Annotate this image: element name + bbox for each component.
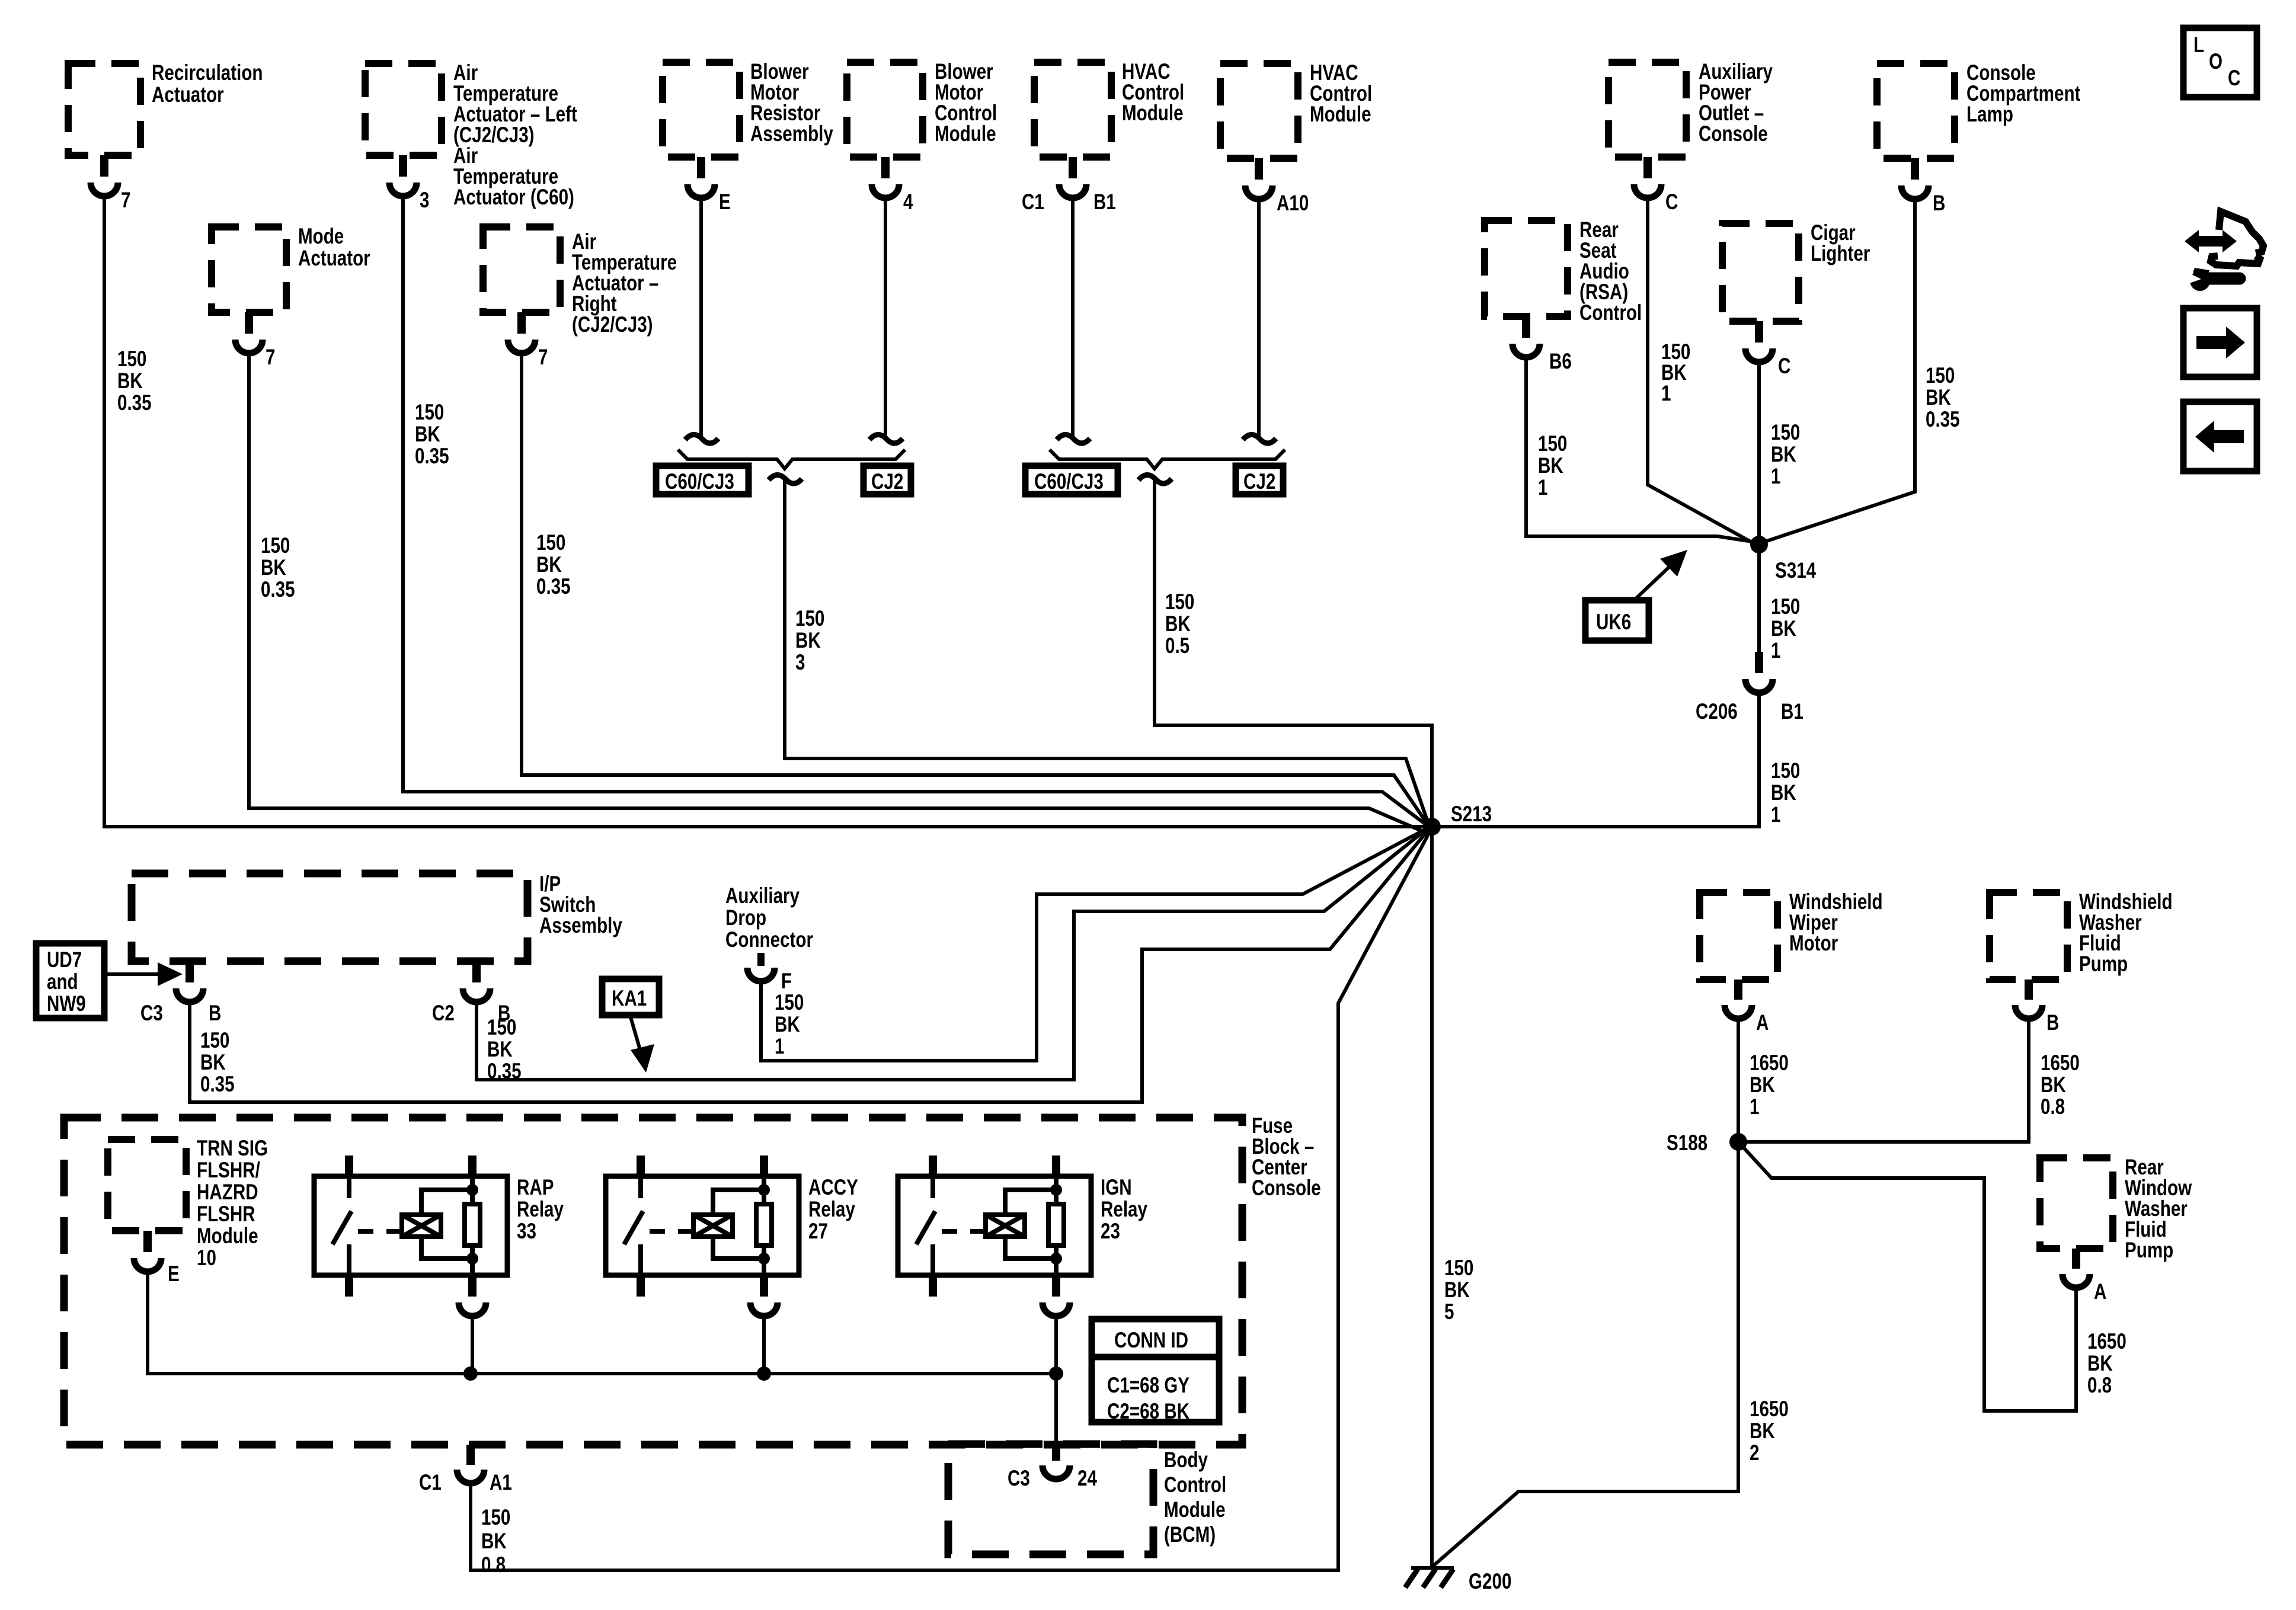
pin A (Windshield Wiper Motor)	[1725, 980, 1769, 1035]
wire: S314 down to C206, 150 BK 1	[1759, 545, 1800, 663]
svg-text:BK: BK	[1538, 454, 1563, 478]
wire: Wiper Motor pin A down to S188, 1650 BK 1	[1738, 1019, 1789, 1142]
svg-text:1650: 1650	[2041, 1051, 2080, 1076]
svg-text:(CJ2/CJ3): (CJ2/CJ3)	[572, 313, 653, 337]
connector box: TRN SIG FLSHR/HAZRD FLSHR Module	[108, 1137, 268, 1270]
label box UD7 and NW9 with arrow	[36, 943, 183, 1018]
wire: Air Temp Actuator Right pin 7 to S213, 150 BK 0.35	[522, 353, 1426, 822]
svg-text:UK6: UK6	[1596, 610, 1631, 635]
svg-text:150: 150	[117, 347, 146, 372]
harness end arc (left group output)	[769, 475, 802, 484]
svg-text:1650: 1650	[1750, 1397, 1789, 1422]
svg-text:RAP: RAP	[517, 1176, 554, 1200]
svg-text:C: C	[1665, 190, 1678, 215]
svg-text:CJ2: CJ2	[1243, 470, 1275, 494]
pin 7 (Recirculation Actuator)	[91, 155, 130, 213]
svg-text:A10: A10	[1277, 191, 1309, 216]
svg-text:BK: BK	[775, 1013, 800, 1037]
svg-text:C3: C3	[140, 1001, 163, 1026]
svg-text:0.35: 0.35	[536, 575, 571, 599]
svg-text:10: 10	[197, 1246, 216, 1270]
svg-text:0.8: 0.8	[481, 1553, 506, 1577]
svg-text:BK: BK	[2087, 1352, 2113, 1376]
vehicle body / wrench icon	[2185, 212, 2263, 291]
pin E (TRN SIG module)	[134, 1231, 180, 1286]
svg-text:KA1: KA1	[612, 987, 647, 1011]
svg-text:1: 1	[775, 1035, 784, 1059]
svg-text:BK: BK	[481, 1529, 507, 1554]
svg-text:7: 7	[538, 345, 548, 370]
svg-text:(BCM): (BCM)	[1164, 1523, 1216, 1547]
connector C206 pin B1	[1696, 652, 1803, 724]
connector box: Rear Window Washer Fluid Pump	[2040, 1156, 2192, 1263]
svg-text:0.8: 0.8	[2087, 1374, 2112, 1398]
wire: right splice output to S213, 150 BK 0.5	[1155, 481, 1432, 827]
svg-text:150: 150	[536, 531, 565, 555]
pin C2 / B (I/P Switch Assembly)	[432, 961, 510, 1026]
svg-text:L: L	[2193, 33, 2204, 57]
pin C (Cigar Lighter)	[1745, 321, 1790, 379]
svg-text:3: 3	[795, 651, 805, 675]
svg-text:150: 150	[200, 1029, 229, 1053]
pin: RAP Relay output	[459, 1275, 486, 1316]
svg-text:Actuator: Actuator	[152, 83, 224, 107]
pin A (Rear Window Washer Fluid Pump)	[2062, 1249, 2106, 1304]
svg-text:1: 1	[1750, 1095, 1759, 1119]
svg-text:BK: BK	[2041, 1073, 2066, 1097]
wire: RAP Relay output down to rail	[471, 1316, 474, 1374]
connector box: Recirculation Actuator	[68, 61, 263, 155]
wire: ACCY Relay output down to rail	[762, 1316, 766, 1374]
wire: TRN module pin E to relay rail	[148, 1272, 1056, 1374]
svg-text:BK: BK	[261, 556, 286, 580]
connector box: Rear Seat Audio (RSA) Control	[1485, 218, 1642, 325]
splice bracket (C60/CJ3 - CJ2 right group)	[1051, 451, 1284, 469]
connector box: Auxiliary Power Outlet - Console	[1609, 60, 1773, 157]
wire: Cigar Lighter pin C down to S314, 150 BK 1	[1759, 362, 1800, 545]
svg-text:BK: BK	[487, 1038, 513, 1062]
svg-text:and: and	[47, 970, 78, 994]
svg-text:E: E	[719, 190, 731, 215]
svg-text:BK: BK	[117, 369, 143, 393]
svg-text:C1=68 GY: C1=68 GY	[1107, 1374, 1189, 1398]
wire: Air Temp Actuator Left pin 3 to S213, 150 BK 0.35	[403, 196, 1425, 824]
svg-text:B1: B1	[1781, 700, 1803, 724]
svg-text:Console: Console	[1699, 122, 1768, 146]
svg-text:C206: C206	[1696, 700, 1738, 724]
svg-text:150: 150	[415, 401, 444, 425]
svg-text:Control: Control	[1164, 1473, 1226, 1497]
svg-text:150: 150	[795, 607, 824, 631]
connector box: Blower Motor Control Module	[847, 60, 997, 157]
svg-text:BK: BK	[1926, 386, 1951, 410]
svg-text:Relay: Relay	[808, 1198, 855, 1222]
svg-text:C1: C1	[1022, 190, 1044, 215]
svg-text:BK: BK	[1750, 1073, 1775, 1097]
svg-text:CONN ID: CONN ID	[1114, 1329, 1188, 1353]
pin 4 (Blower Motor Control Module)	[872, 157, 913, 215]
pin 7 (Mode Actuator)	[235, 312, 275, 370]
svg-text:S314: S314	[1775, 559, 1816, 583]
svg-text:E: E	[168, 1262, 180, 1286]
svg-text:150: 150	[1926, 364, 1955, 388]
svg-text:B1: B1	[1093, 190, 1116, 215]
svg-text:Lamp: Lamp	[1966, 103, 2013, 127]
svg-text:Control: Control	[1579, 301, 1642, 325]
svg-text:UD7: UD7	[47, 948, 82, 972]
connector box: Air Temperature Actuator - Right	[483, 227, 677, 337]
wire: Blower Motor Resistor pin E down to splice bracket	[699, 198, 703, 437]
wire: Aux Drop Connector F to S213, 150 BK 1	[761, 829, 1426, 1061]
svg-text:A1: A1	[490, 1471, 512, 1495]
svg-text:0.35: 0.35	[415, 444, 449, 469]
harness end arc (4 wire)	[869, 434, 903, 443]
svg-text:C2=68 BK: C2=68 BK	[1107, 1400, 1189, 1424]
LOC legend box	[2183, 28, 2257, 97]
wire: HVAC pin B1 down to splice bracket	[1071, 198, 1075, 437]
svg-text:C2: C2	[432, 1001, 455, 1026]
pin: IGN Relay output	[1043, 1275, 1070, 1316]
svg-text:150: 150	[261, 534, 290, 558]
harness end arc (E wire)	[685, 434, 718, 443]
svg-text:Drop: Drop	[725, 906, 766, 930]
wire: S213 to fuse block feed (via C1/A1)	[471, 834, 1428, 1570]
wire: IGN Relay output down to BCM	[1054, 1316, 1058, 1457]
svg-text:S188: S188	[1667, 1131, 1707, 1156]
svg-text:0.35: 0.35	[487, 1060, 522, 1084]
svg-text:Actuator (C60): Actuator (C60)	[453, 185, 574, 210]
svg-text:C60/CJ3: C60/CJ3	[1034, 470, 1104, 494]
connector: Auxiliary Drop Connector pin F	[725, 884, 813, 994]
wire: C206 down to S213 horizontal, 150 BK 1	[1432, 693, 1800, 827]
pin C3 / B (I/P Switch Assembly)	[140, 961, 221, 1026]
label box: CJ2 (left)	[864, 466, 911, 494]
connector box: Console Compartment Lamp	[1877, 61, 2080, 158]
svg-text:C60/CJ3: C60/CJ3	[665, 470, 734, 494]
svg-text:G200: G200	[1469, 1570, 1511, 1594]
label box: C60/CJ3 (right)	[1025, 466, 1118, 494]
svg-text:2: 2	[1750, 1441, 1759, 1465]
svg-text:Auxiliary: Auxiliary	[725, 884, 800, 908]
svg-text:BK: BK	[1750, 1419, 1775, 1443]
pin 3 (Air Temperature Actuator - Left)	[389, 155, 429, 213]
svg-text:33: 33	[517, 1219, 536, 1244]
connector box: Body Control Module (BCM)	[948, 1444, 1226, 1554]
svg-text:5: 5	[1444, 1300, 1454, 1324]
svg-text:0.35: 0.35	[117, 391, 152, 415]
harness end arc (B1 wire)	[1057, 434, 1090, 443]
pin B (Console Compartment Lamp)	[1901, 158, 1945, 216]
svg-text:27: 27	[808, 1219, 828, 1244]
svg-text:150: 150	[1538, 432, 1567, 456]
svg-text:BK: BK	[795, 629, 821, 653]
svg-text:Body: Body	[1164, 1448, 1208, 1473]
svg-text:23: 23	[1101, 1219, 1120, 1244]
svg-text:0.35: 0.35	[261, 578, 295, 602]
svg-text:1: 1	[1538, 476, 1547, 500]
connector box: Mode Actuator	[212, 225, 370, 312]
svg-text:150: 150	[1771, 759, 1800, 783]
splice S188	[1667, 1131, 1747, 1156]
svg-text:150: 150	[1771, 595, 1800, 619]
pin A10 (HVAC Control Module)	[1245, 158, 1309, 216]
pin 7 (Air Temperature Actuator - Right)	[508, 312, 548, 370]
pin B6 (RSA Control)	[1512, 316, 1572, 374]
svg-text:BK: BK	[415, 422, 440, 447]
svg-text:Pump: Pump	[2125, 1238, 2173, 1263]
svg-text:A: A	[1756, 1011, 1769, 1035]
junction dot ACCY/rail	[757, 1366, 771, 1381]
svg-text:0.8: 0.8	[2041, 1095, 2065, 1119]
svg-text:3: 3	[420, 188, 429, 213]
junction dot RAP/rail	[463, 1366, 478, 1381]
svg-text:BK: BK	[1771, 443, 1796, 467]
svg-text:BK: BK	[1771, 781, 1796, 805]
svg-text:F: F	[781, 969, 792, 994]
svg-text:BK: BK	[1771, 617, 1796, 641]
svg-text:C3: C3	[1008, 1467, 1030, 1491]
svg-text:BK: BK	[200, 1051, 226, 1075]
svg-text:HAZRD: HAZRD	[197, 1180, 258, 1205]
connector C1/A1 (fuse block to harness)	[419, 1445, 512, 1495]
pin C (Auxiliary Power Outlet)	[1634, 157, 1678, 215]
svg-text:0.35: 0.35	[1926, 408, 1960, 432]
connector box: Air Temperature Actuator - Left	[365, 61, 577, 210]
svg-text:Lighter: Lighter	[1811, 242, 1870, 266]
connector box: Blower Motor Resistor Assembly	[663, 60, 833, 157]
svg-text:Console: Console	[1252, 1176, 1321, 1201]
connector box: Windshield Washer Fluid Pump	[1990, 890, 2173, 980]
svg-text:Connector: Connector	[725, 928, 813, 952]
svg-text:CJ2: CJ2	[871, 470, 903, 494]
pin B1 (HVAC Control Module)	[1022, 157, 1116, 215]
svg-text:150: 150	[487, 1016, 516, 1040]
wire: I/P C3-B to S213, 150 BK 0.35	[190, 832, 1427, 1102]
svg-text:BK: BK	[536, 553, 562, 577]
svg-text:FLSHR: FLSHR	[197, 1202, 255, 1227]
svg-text:1650: 1650	[2087, 1330, 2126, 1354]
ground G200	[1405, 1568, 1511, 1594]
svg-text:IGN: IGN	[1101, 1176, 1132, 1200]
svg-text:Module: Module	[197, 1224, 258, 1249]
svg-text:B: B	[209, 1001, 221, 1026]
pin: ACCY Relay output	[750, 1275, 778, 1316]
svg-text:1: 1	[1771, 465, 1780, 489]
pin B (Windshield Washer Fluid Pump)	[2015, 980, 2059, 1035]
connector box: HVAC Control Module (A10)	[1220, 61, 1372, 158]
wire: Mode Actuator pin 7 to S213, 150 BK 0.35	[249, 353, 1424, 832]
connector box: HVAC Control Module (C1/B1)	[1034, 60, 1184, 157]
svg-text:FLSHR/: FLSHR/	[197, 1158, 260, 1183]
svg-text:Module: Module	[935, 122, 996, 146]
wire: S188 to Rear Window Washer Pump pin A, 1650 BK 0.8	[1738, 1142, 2126, 1411]
splice S213	[1423, 802, 1492, 836]
wire: S188 down to G200, 1650 BK 2	[1434, 1142, 1789, 1565]
svg-text:ACCY: ACCY	[808, 1176, 858, 1200]
splice S314	[1750, 536, 1816, 583]
junction dot IGN/rail	[1049, 1366, 1063, 1381]
svg-text:1: 1	[1771, 803, 1780, 827]
svg-text:O: O	[2209, 50, 2223, 74]
svg-text:C: C	[1778, 354, 1790, 379]
right-arrow legend box	[2183, 308, 2257, 377]
wire: Washer Pump pin B to S188, 1650 BK 0.8	[1738, 1019, 2080, 1142]
svg-text:1: 1	[1771, 639, 1780, 663]
label box: C60/CJ3 (left)	[656, 466, 749, 494]
relay IGN Relay 23	[898, 1156, 1147, 1297]
svg-text:4: 4	[903, 190, 913, 215]
svg-text:B: B	[2046, 1011, 2059, 1035]
svg-text:7: 7	[266, 345, 275, 370]
svg-text:150: 150	[481, 1506, 510, 1530]
svg-text:A: A	[2094, 1280, 2106, 1304]
svg-text:150: 150	[1165, 590, 1194, 614]
svg-text:1: 1	[1661, 382, 1671, 406]
label box CONN ID	[1092, 1319, 1219, 1424]
wire: S213 down to G200 ground, 150 BK 5	[1432, 827, 1473, 1568]
svg-text:B6: B6	[1549, 350, 1572, 374]
svg-text:Assembly: Assembly	[750, 122, 833, 146]
svg-text:BK: BK	[1444, 1278, 1470, 1302]
wire: Recirculation Actuator pin 7 to S213, 150 BK 0.35	[104, 196, 1424, 827]
svg-text:Module: Module	[1164, 1498, 1226, 1522]
svg-text:Mode: Mode	[298, 225, 344, 249]
wire: splice output to S213, 150 BK 3	[785, 481, 1427, 820]
relay ACCY Relay 27	[606, 1156, 858, 1297]
wire: HVAC pin A10 down to splice bracket	[1257, 199, 1261, 437]
relay RAP Relay 33	[314, 1156, 564, 1297]
wire: C1/A1 down and right (150 BK 0.8) to fuse block feed	[471, 1483, 510, 1577]
svg-text:S213: S213	[1451, 802, 1492, 827]
label box UK6 with arrow	[1585, 550, 1687, 641]
svg-text:Motor: Motor	[1789, 932, 1838, 956]
svg-text:BK: BK	[1165, 612, 1191, 636]
svg-text:Relay: Relay	[517, 1198, 564, 1222]
svg-text:C: C	[2228, 66, 2240, 91]
svg-text:150: 150	[1771, 421, 1800, 445]
connector box: Cigar Lighter	[1722, 221, 1870, 321]
svg-text:1650: 1650	[1750, 1051, 1789, 1076]
connector C3/24 (BCM)	[1008, 1444, 1097, 1491]
svg-text:Recirculation: Recirculation	[152, 61, 263, 85]
svg-text:Module: Module	[1122, 101, 1184, 126]
svg-text:B: B	[1933, 191, 1945, 216]
harness end arc (right group output)	[1139, 475, 1172, 484]
svg-text:7: 7	[121, 188, 130, 213]
wire: RSA Control pin B6 to S314, 150 BK 1	[1526, 357, 1756, 542]
wire: Aux Power Outlet pin C to S314, 150 BK 1	[1648, 198, 1754, 543]
svg-text:150: 150	[775, 991, 804, 1015]
svg-text:Assembly: Assembly	[539, 914, 622, 938]
harness end arc (A10 wire)	[1243, 434, 1276, 443]
svg-text:150: 150	[1444, 1256, 1473, 1281]
connector box: Windshield Wiper Motor	[1700, 890, 1883, 980]
left-arrow legend box	[2183, 402, 2257, 471]
svg-text:Pump: Pump	[2079, 952, 2128, 977]
wire: Console Lamp pin B to S314, 150 BK 0.35	[1761, 199, 1960, 543]
connector box: I/P Switch Assembly	[132, 872, 622, 961]
svg-text:TRN SIG: TRN SIG	[197, 1137, 268, 1161]
svg-text:0.35: 0.35	[200, 1073, 235, 1097]
svg-text:C1: C1	[419, 1471, 442, 1495]
splice bracket (C60/CJ3 - CJ2 left group)	[679, 451, 904, 469]
svg-text:NW9: NW9	[47, 992, 86, 1016]
wire: I/P C2-B to S213, 150 BK 0.35	[477, 830, 1426, 1084]
label box: CJ2 (right)	[1236, 466, 1283, 494]
svg-text:Relay: Relay	[1101, 1198, 1147, 1222]
connector box: Fuse Block - Center Console	[64, 1114, 1321, 1445]
pin E (Blower Motor Resistor Assembly)	[687, 157, 731, 215]
svg-text:0.5: 0.5	[1165, 634, 1189, 658]
wire: Blower Motor Control Module pin 4 down to splice bracket	[884, 198, 887, 437]
svg-text:Actuator: Actuator	[298, 247, 370, 271]
label box KA1 with arrow	[602, 979, 659, 1073]
svg-text:24: 24	[1077, 1467, 1097, 1491]
svg-text:Module: Module	[1310, 103, 1371, 127]
